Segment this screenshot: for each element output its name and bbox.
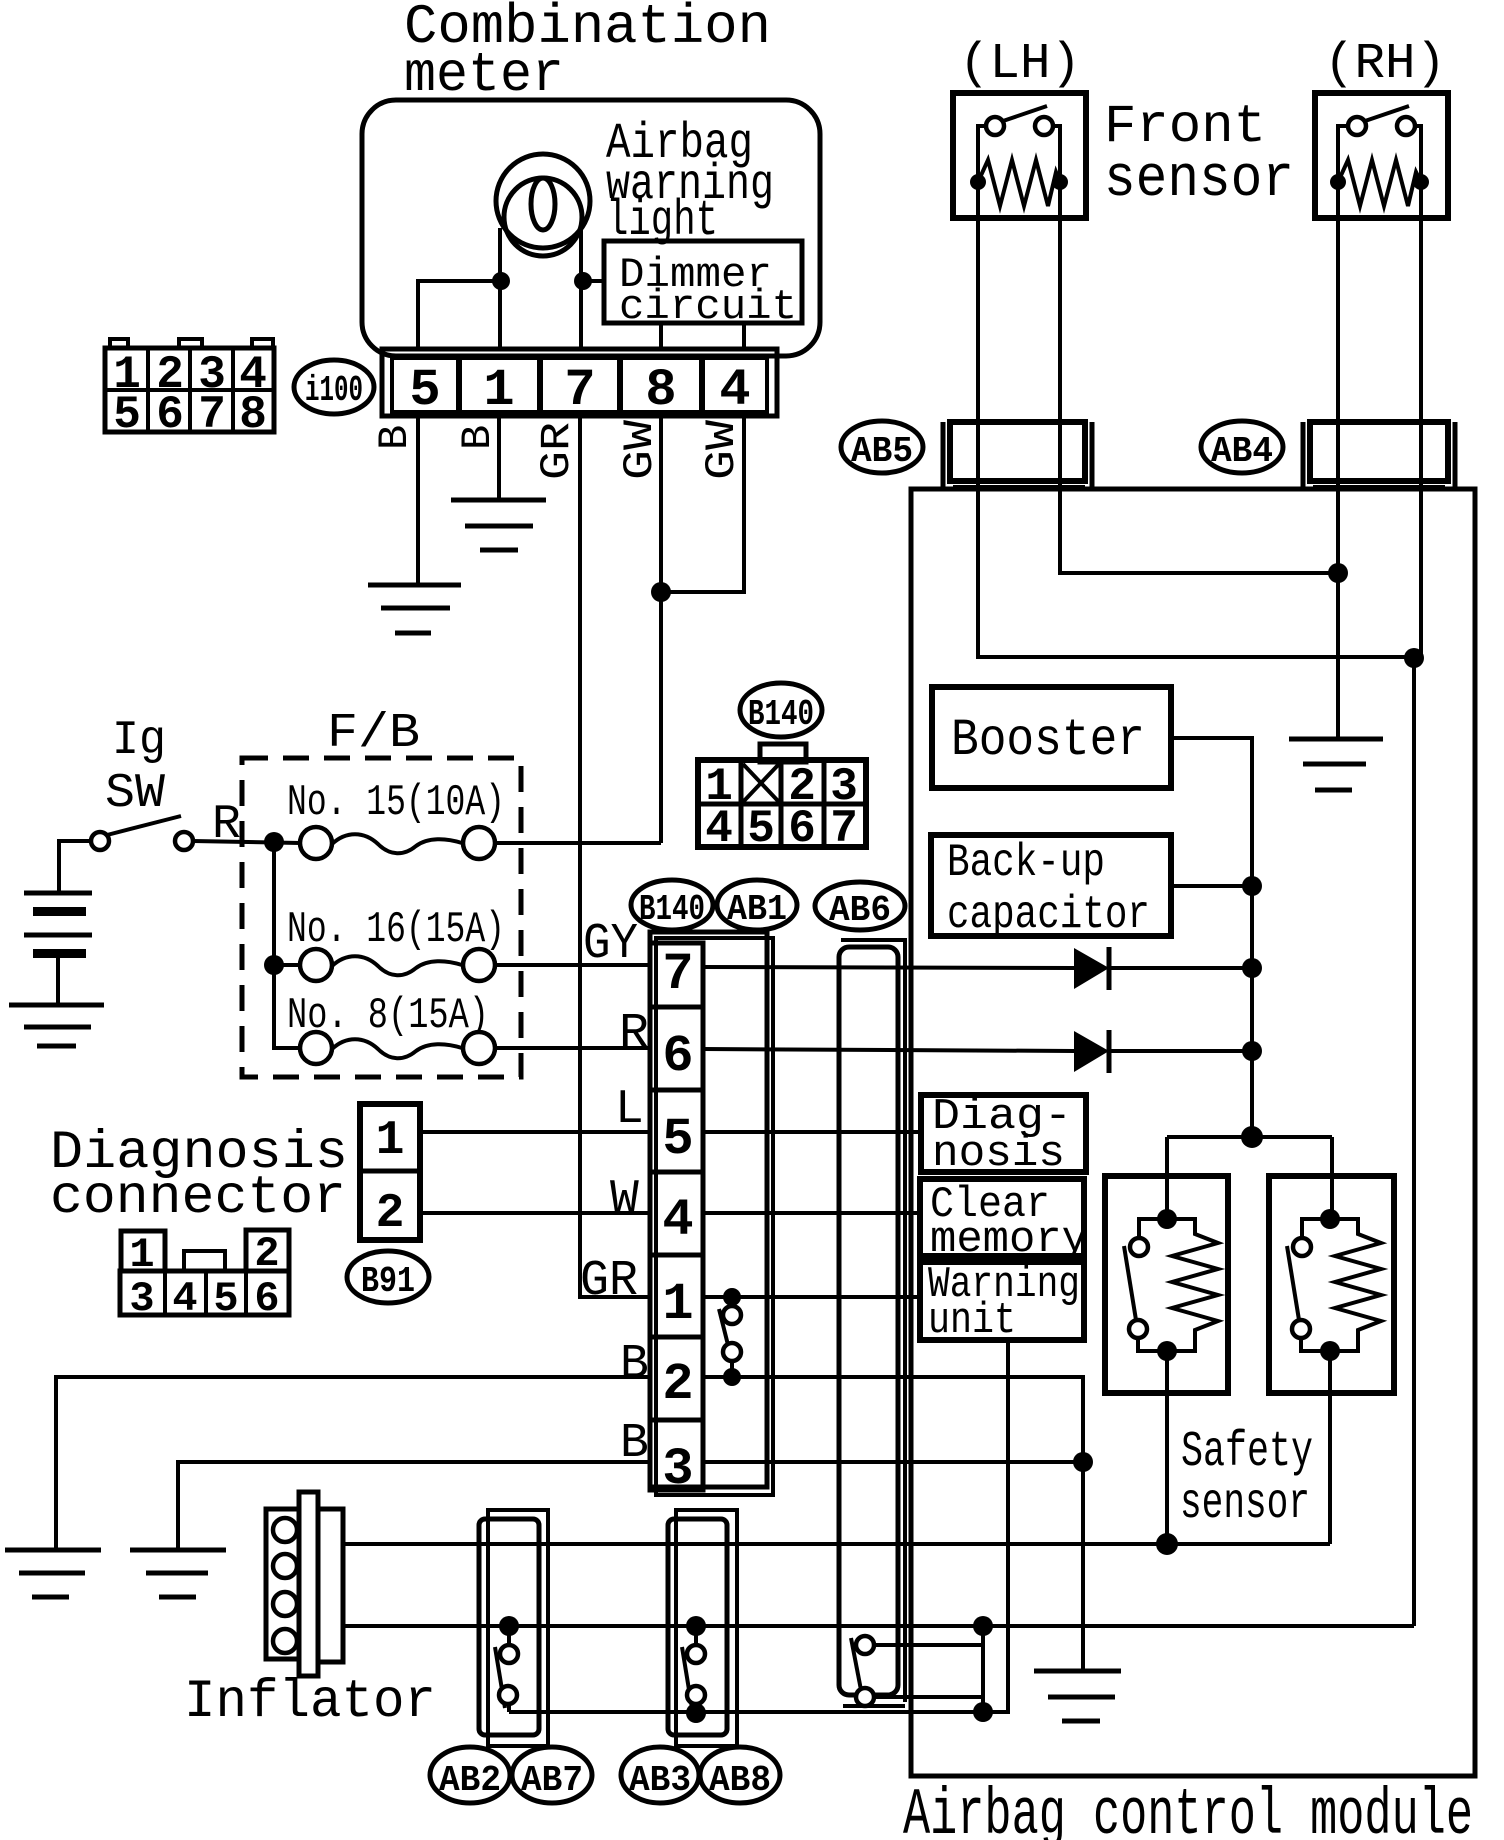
wire diag pin1 to L — [420, 1130, 650, 1134]
wire pin2 B to left ground — [56, 1377, 650, 1550]
wire branch to dimmer — [583, 279, 604, 283]
svg-text:4: 4 — [662, 1191, 693, 1250]
connector labels AB2 AB7 — [430, 1747, 510, 1803]
wire pin3 B to left ground — [178, 1462, 650, 1550]
wire warning unit down — [509, 1340, 1008, 1712]
svg-text:1: 1 — [129, 1231, 154, 1279]
wire fuse feed vertical — [274, 842, 301, 1048]
svg-text:AB8: AB8 — [709, 1760, 771, 1801]
connector B140/AB1 outer box — [650, 932, 767, 1487]
inflator — [266, 1509, 301, 1659]
wire squib row 1 — [343, 1542, 1330, 1546]
svg-text:2: 2 — [376, 1187, 405, 1241]
svg-text:GW: GW — [698, 419, 746, 480]
wire RH right down long — [1414, 182, 1421, 1626]
connector label i100 — [294, 360, 374, 414]
junction capacitor — [1242, 876, 1262, 896]
diode D2 — [1074, 1031, 1109, 1072]
junction left safety to squib row — [1156, 1533, 1178, 1555]
connector face view B140 — [760, 744, 806, 762]
connector label B91 — [347, 1251, 429, 1303]
svg-text:i100: i100 — [305, 370, 363, 411]
wire capacitor out — [1171, 884, 1252, 888]
wire dimmer out 1 — [659, 323, 663, 351]
svg-text:nosis: nosis — [932, 1129, 1065, 1179]
pin cells — [650, 943, 703, 1490]
RH resistor — [1338, 160, 1421, 206]
diagnosis connector pins — [360, 1104, 420, 1240]
front sensor LH box — [953, 93, 1086, 218]
wire LH left down into module — [978, 182, 1414, 657]
wire row pin7 to diode1 — [703, 967, 1074, 968]
wire lamp left leg — [498, 228, 502, 351]
wire RH left down to module ground — [1336, 182, 1340, 739]
ground module bottom — [1034, 1669, 1121, 1674]
airbag warning light lamp L1 — [496, 154, 590, 248]
svg-text:5: 5 — [213, 1275, 238, 1323]
svg-text:2: 2 — [254, 1230, 279, 1278]
svg-text:7: 7 — [198, 389, 226, 441]
svg-text:B: B — [454, 425, 502, 450]
junction GW — [651, 582, 671, 602]
svg-text:AB7: AB7 — [521, 1760, 583, 1801]
wire row pin3 B joins — [703, 1460, 1083, 1464]
junction lamp right — [574, 272, 592, 290]
svg-text:B140: B140 — [639, 889, 705, 930]
svg-text:5: 5 — [662, 1110, 693, 1169]
wire lamp right leg — [579, 230, 583, 351]
svg-text:W: W — [610, 1173, 639, 1227]
junction safety feed — [1241, 1126, 1263, 1148]
warning unit box — [920, 1262, 1084, 1340]
svg-text:B: B — [620, 1338, 649, 1392]
svg-text:7: 7 — [830, 803, 858, 855]
svg-text:8: 8 — [645, 361, 676, 420]
svg-text:5: 5 — [747, 803, 775, 855]
svg-text:connector: connector — [50, 1168, 346, 1229]
svg-text:3: 3 — [662, 1440, 693, 1499]
connector AB2 — [488, 1510, 548, 1746]
svg-text:(RH): (RH) — [1324, 36, 1446, 93]
junction lamp left — [492, 272, 510, 290]
wire fuse1 out to GW — [494, 841, 661, 845]
fuse box F/B (dashed) — [242, 758, 521, 1077]
svg-text:2: 2 — [662, 1355, 693, 1414]
svg-text:7: 7 — [662, 945, 693, 1004]
RH switch — [1348, 117, 1366, 135]
wire GW pin4 down joins pin8 — [661, 416, 744, 592]
svg-text:3: 3 — [129, 1275, 154, 1323]
svg-text:8: 8 — [239, 389, 267, 441]
junction fuse feed — [264, 832, 284, 852]
svg-text:Booster: Booster — [951, 711, 1145, 770]
svg-text:6: 6 — [662, 1027, 693, 1086]
junction RH right with LH left — [1404, 648, 1424, 668]
connector AB3 — [676, 1510, 737, 1746]
LH resistor — [978, 160, 1060, 206]
svg-text:GR: GR — [533, 422, 581, 480]
connector AB4 — [1301, 422, 1306, 487]
svg-text:AB3: AB3 — [629, 1760, 691, 1801]
wire fuse2 out to pin7 GY — [494, 963, 650, 967]
shorting switch in AB1 — [723, 1288, 741, 1306]
right safety switch — [1320, 1209, 1340, 1229]
right safety resistor — [1330, 1219, 1381, 1351]
AB6 shorting switch — [856, 1636, 874, 1654]
wire switch to fuse box — [193, 841, 300, 843]
safety sensor left box — [1105, 1176, 1228, 1393]
svg-text:(LH): (LH) — [959, 36, 1081, 93]
svg-text:B: B — [371, 425, 419, 450]
svg-text:GR: GR — [580, 1253, 638, 1310]
svg-text:No. 15(10A): No. 15(10A) — [287, 778, 505, 828]
svg-text:Safety: Safety — [1181, 1424, 1313, 1481]
diode D1 — [1074, 948, 1109, 989]
svg-text:B140: B140 — [748, 694, 814, 735]
svg-text:AB2: AB2 — [439, 1760, 501, 1801]
svg-text:circuit: circuit — [619, 283, 797, 331]
connector AB5 — [941, 422, 946, 487]
wire left safety down — [1165, 1351, 1169, 1544]
wire row pin5 to diagnosis box — [703, 1130, 921, 1134]
booster box — [932, 687, 1171, 788]
wire switch return row — [507, 1703, 511, 1712]
combination meter box — [362, 100, 820, 356]
connector AB6 — [815, 882, 905, 930]
wire booster out — [1171, 738, 1252, 1137]
svg-text:L: L — [615, 1083, 644, 1137]
svg-text:B91: B91 — [361, 1261, 415, 1302]
connector label B140 — [631, 880, 713, 930]
left safety switch — [1157, 1209, 1177, 1229]
connector label AB1 — [717, 880, 797, 930]
left safety resistor — [1167, 1219, 1218, 1351]
back-up capacitor box — [931, 835, 1171, 936]
wire safety top rail — [1167, 1135, 1332, 1139]
wire right safety down — [1328, 1351, 1332, 1544]
wire dimmer out 2 — [742, 323, 746, 351]
svg-text:4: 4 — [172, 1275, 197, 1323]
battery B1 — [24, 891, 92, 896]
wire switch to battery — [59, 841, 91, 893]
wire row pin4 to clear memory box — [703, 1211, 921, 1215]
airbag control module box — [911, 489, 1475, 1776]
svg-text:GW: GW — [616, 419, 664, 480]
svg-text:1: 1 — [483, 361, 514, 420]
svg-text:R: R — [212, 798, 241, 852]
connector i100 row — [382, 349, 777, 416]
svg-text:AB5: AB5 — [851, 431, 913, 472]
svg-text:Inflator: Inflator — [184, 1672, 436, 1733]
svg-text:sensor: sensor — [1180, 1476, 1310, 1533]
svg-text:4: 4 — [719, 361, 750, 420]
junction fuse2 feed — [264, 955, 284, 975]
wire branch to pin5 — [418, 281, 501, 351]
wire GW pin8 down — [659, 416, 663, 843]
svg-text:meter: meter — [404, 43, 564, 107]
safety sensor right box — [1269, 1176, 1394, 1393]
svg-text:6: 6 — [254, 1275, 279, 1323]
wire squib row 2 — [343, 1624, 1414, 1628]
wire pin5 to ground — [416, 416, 420, 585]
dimmer circuit box — [604, 241, 802, 323]
svg-text:F/B: F/B — [327, 707, 420, 761]
svg-text:Ig: Ig — [112, 714, 166, 768]
wire row pin2 B to module ground — [703, 1377, 1083, 1671]
ignition switch — [91, 832, 109, 850]
ground under pin1 — [451, 498, 546, 503]
svg-text:AB6: AB6 — [829, 890, 891, 931]
svg-text:sensor: sensor — [1104, 148, 1294, 213]
svg-text:5: 5 — [113, 389, 141, 441]
ground left 2 — [130, 1548, 226, 1553]
connector label B140 — [740, 683, 822, 737]
front sensor RH box — [1315, 93, 1448, 218]
junction diode2 — [1242, 1041, 1262, 1061]
junction RH left with LH right — [1328, 563, 1348, 583]
ground left 1 — [5, 1548, 101, 1553]
svg-text:capacitor: capacitor — [947, 889, 1150, 941]
wire LH right down into module — [1060, 182, 1338, 573]
svg-text:memory: memory — [930, 1215, 1088, 1265]
svg-text:5: 5 — [409, 361, 440, 420]
svg-text:Airbag control module: Airbag control module — [903, 1778, 1473, 1840]
wire row pin1 to warning unit box — [703, 1295, 921, 1299]
wire diag pin2 to W — [420, 1211, 650, 1215]
svg-text:1: 1 — [662, 1275, 693, 1334]
wire fuse3 out to pin6 R — [494, 1046, 650, 1050]
ground under pin5 — [368, 583, 461, 588]
svg-text:SW: SW — [105, 767, 165, 821]
connector labels AB3 AB8 — [621, 1747, 699, 1803]
svg-text:AB1: AB1 — [727, 889, 787, 930]
svg-text:Back-up: Back-up — [947, 837, 1105, 889]
ground front sensor (in module) — [1289, 737, 1383, 742]
svg-text:7: 7 — [564, 361, 595, 420]
svg-text:R: R — [619, 1006, 649, 1063]
battery ground — [9, 1003, 104, 1008]
svg-text:GY: GY — [583, 916, 638, 973]
clear memory box — [920, 1179, 1084, 1256]
svg-text:1: 1 — [376, 1114, 405, 1168]
wire pin1 to ground — [497, 416, 501, 500]
wire row pin6 to diode2 — [703, 1049, 1074, 1051]
connector face view i100 (8 pin) — [105, 348, 274, 432]
svg-text:unit: unit — [928, 1296, 1016, 1346]
LH switch — [986, 117, 1004, 135]
connector face view B91 — [121, 1231, 165, 1271]
junction diode1 — [1242, 958, 1262, 978]
junction B wires — [1073, 1452, 1093, 1472]
wire GR pin7 down — [580, 416, 650, 1297]
svg-text:4: 4 — [705, 803, 733, 855]
svg-text:AB4: AB4 — [1211, 431, 1273, 472]
svg-text:6: 6 — [788, 803, 816, 855]
diagnosis box — [921, 1095, 1086, 1172]
svg-text:6: 6 — [156, 389, 184, 441]
